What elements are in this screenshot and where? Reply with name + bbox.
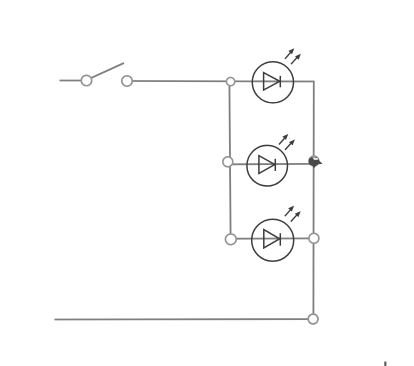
wire: middle row (J2 to right bus through LED D2) [229,163,314,165]
node: bottom-right corner [308,314,318,324]
junction node J4 (right bus, row 3) [309,233,319,243]
cursor blob at right-bus junction, row 2 [309,157,323,168]
wire: bottom return [55,318,311,320]
junction node J1 (left bus, row 1) [226,77,234,85]
junction node J3 (left bus, row 3) [225,234,236,245]
switch SW1 terminal B [122,76,132,86]
LED D1 [252,48,301,103]
junction node J2 (left bus, row 2) [223,157,233,167]
LED D3 [252,206,301,262]
wire: switch to LED bus (top row through LED D1) [132,80,314,83]
speck (bottom-right artifact) [384,362,386,366]
switch SW1 lever (open) [91,63,124,78]
LED D2 [247,134,295,186]
cursor blob inner light patch [313,158,318,160]
wire: right vertical bus [312,81,314,315]
wire: left vertical bus [229,81,230,239]
junction node (right bus, row 2, under cursor) [309,156,319,166]
wire: bottom row (J3 to right bus through LED D3) [231,237,314,239]
switch SW1 terminal A [81,75,91,85]
wire: left stub to switch [60,80,83,82]
